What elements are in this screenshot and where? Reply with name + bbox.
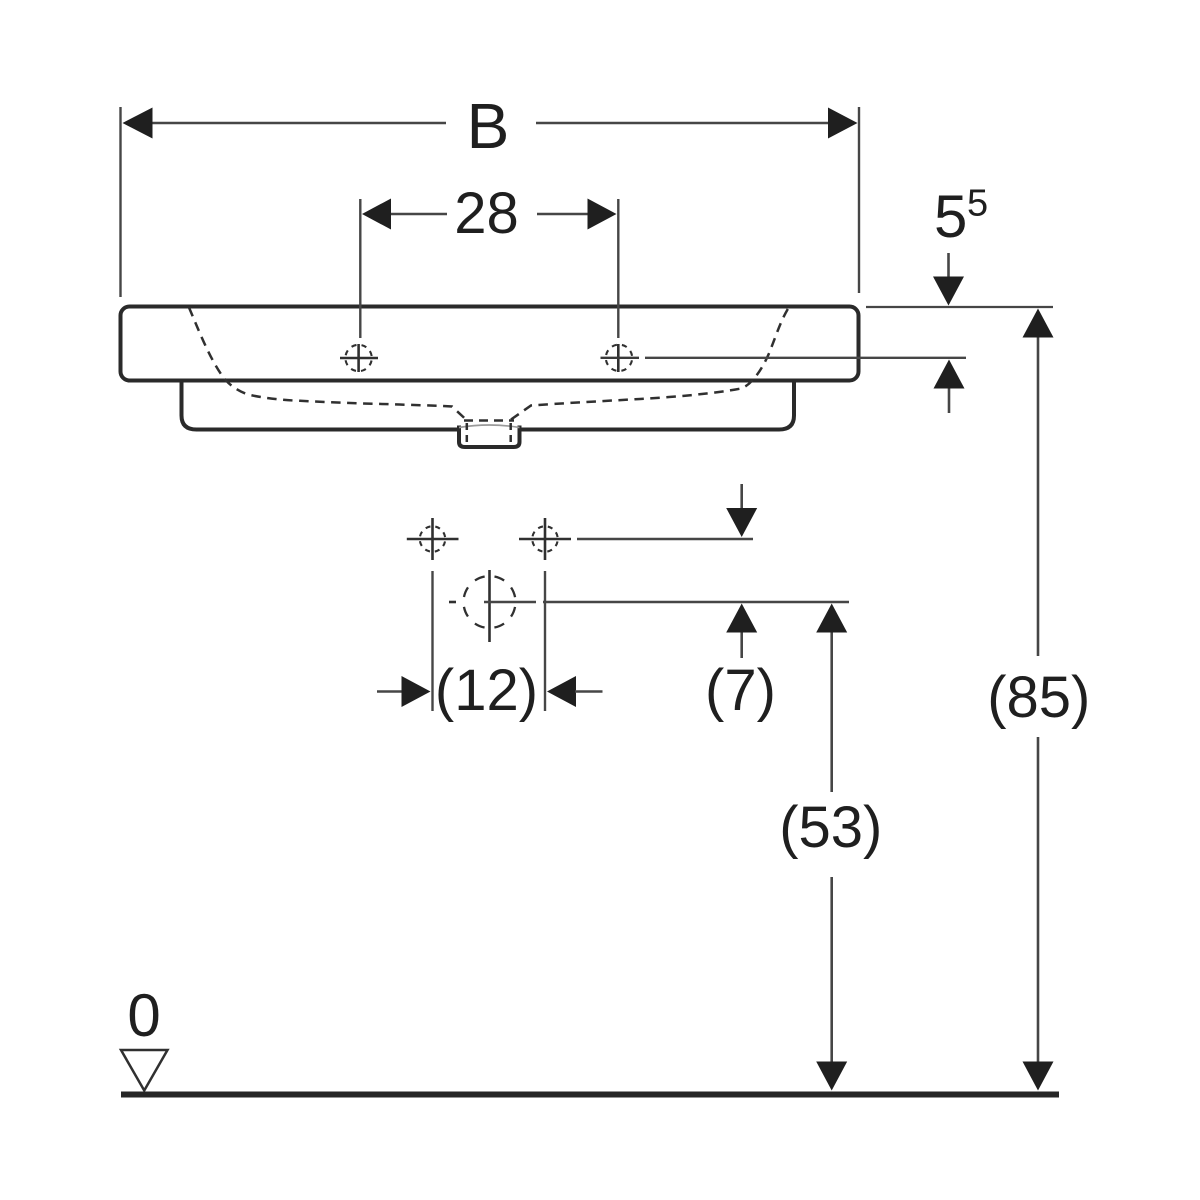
right fixing hole crosshair [519, 518, 571, 560]
label 5^5 [934, 183, 988, 251]
right faucet hole crosshair [606, 344, 632, 372]
5.5 reference line [866, 306, 1053, 308]
drain dashed edge right vertical [509, 423, 512, 447]
wall fixing holes reference line [577, 538, 753, 540]
dimension (12) left arrow [377, 676, 431, 707]
dimension 28 left arrowhead [362, 199, 391, 230]
svg-text:B: B [467, 90, 510, 162]
dimension (53) bottom arrowhead [816, 1062, 847, 1091]
svg-text:(12): (12) [435, 658, 538, 723]
dimension (85) bottom arrowhead [1023, 1062, 1054, 1091]
dimension (85) label [987, 665, 1090, 730]
dimension B right arrowhead [828, 108, 858, 139]
drain reference line [484, 601, 849, 603]
inner basin dashed outline left [189, 308, 466, 420]
dimension (53) top arrowhead [816, 604, 847, 633]
dimension 28 label [454, 181, 519, 246]
dimension (85) top arrowhead [1023, 309, 1054, 338]
drain dashed edge horizontal [464, 419, 514, 422]
dimension (85) line [1037, 337, 1040, 1062]
right fixing hole extension line [544, 571, 546, 711]
dimension (12) right arrow [547, 676, 603, 707]
drain dashed edge left vertical [466, 423, 469, 447]
svg-text:(53): (53) [779, 795, 882, 860]
faucet reference line [601, 357, 640, 359]
svg-text:0: 0 [127, 982, 160, 1049]
inner basin dashed outline right [511, 307, 789, 420]
washbasin rim slab [121, 307, 859, 381]
dimension B label [467, 90, 510, 162]
dimension (53) label [779, 795, 882, 860]
floor line [121, 1092, 1059, 1098]
svg-text:5: 5 [934, 183, 967, 250]
dimension 28 right arrowhead [588, 199, 617, 230]
dimension B left extension line [119, 107, 121, 297]
5.5 dim down arrow [933, 253, 964, 306]
drain trap crosshair horizontal dash [449, 601, 456, 604]
drain outlet box [458, 424, 521, 448]
dimension B line [151, 122, 830, 124]
fixing line down arrow [726, 484, 757, 537]
svg-text:28: 28 [454, 181, 519, 246]
dimension (12) label [435, 658, 538, 723]
dimension (7) up arrow [726, 604, 757, 659]
dimension 28 right extension line [617, 199, 619, 338]
drain trap dashed circle [464, 576, 516, 628]
drain trap crosshair vertical [488, 570, 491, 642]
left fixing hole crosshair [407, 518, 459, 560]
left fixing hole extension line [431, 571, 433, 711]
left faucet hole crosshair [340, 344, 378, 372]
svg-text:(7): (7) [705, 658, 776, 723]
5.5 dim up arrow [934, 360, 965, 414]
dimension 28 left extension line [359, 199, 361, 338]
dimension 28 line [390, 213, 589, 215]
dimension B left arrowhead [123, 108, 153, 139]
datum zero label [127, 982, 160, 1049]
dimension B right extension line [858, 107, 860, 293]
washbasin bowl lower body [182, 376, 795, 430]
dimension (53) line [830, 632, 833, 1062]
svg-text:(85): (85) [987, 665, 1090, 730]
datum triangle [121, 1050, 168, 1091]
svg-text:5: 5 [967, 183, 988, 225]
dimension (7) label [705, 658, 776, 723]
